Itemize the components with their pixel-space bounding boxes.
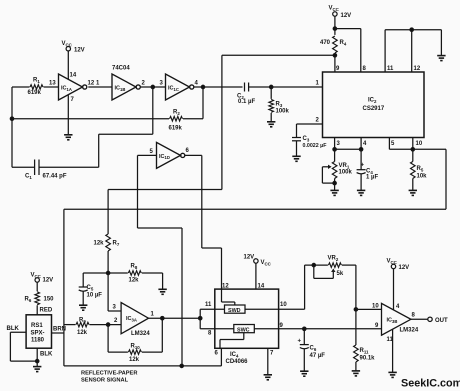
svg-text:IC3A: IC3A	[126, 316, 137, 322]
svg-text:+: +	[298, 339, 302, 345]
svg-text:+: +	[361, 163, 365, 169]
svg-text:12k: 12k	[94, 241, 105, 247]
node X divider junction	[106, 271, 109, 274]
svg-text:CD4066: CD4066	[226, 359, 249, 365]
wire pin3 to pin4	[335, 148, 362, 150]
svg-text:10: 10	[280, 302, 287, 308]
wire feedback node vertical	[11, 87, 13, 167]
resistor R9 12k	[64, 318, 121, 337]
wire node X to IC3A pin 3	[108, 273, 121, 311]
svg-text:OUT: OUT	[435, 318, 448, 324]
svg-text:VR2: VR2	[328, 256, 339, 262]
svg-text:1 µF: 1 µF	[366, 175, 378, 181]
node C6 junction	[303, 327, 306, 330]
svg-text:VCC: VCC	[387, 259, 398, 265]
node Vcc/R4/pin8 junction	[333, 27, 336, 30]
ground at R8	[158, 289, 166, 294]
wire IC1B output to IC1C input	[140, 86, 165, 88]
wire IC1D output to CD4066 pin 12	[185, 155, 222, 289]
op-amp U3 IC3A LM324	[121, 303, 154, 337]
capacitor C2 0.1uF	[237, 83, 323, 106]
ground at R11	[352, 371, 360, 376]
node R4 bottom pin9 junction	[333, 54, 336, 57]
wire BLK bottom lead	[37, 348, 53, 366]
potentiometer VR2 5k	[314, 256, 356, 310]
svg-text:IC1D: IC1D	[159, 154, 170, 160]
resistor R7 12k	[94, 190, 222, 274]
svg-text:12k: 12k	[129, 357, 140, 363]
svg-text:RS1: RS1	[31, 323, 43, 329]
svg-text:R2: R2	[173, 110, 180, 116]
resistor R2 619k feedback	[12, 87, 203, 132]
svg-text:R10: R10	[131, 344, 141, 350]
svg-text:R6: R6	[25, 297, 32, 303]
node pin10 junction	[411, 148, 414, 151]
node IC1C output junction	[201, 85, 204, 88]
svg-text:IC2: IC2	[368, 98, 377, 104]
svg-text:R7: R7	[113, 241, 120, 247]
wire pins 11 and 12 to ground	[385, 30, 441, 72]
svg-text:LM324: LM324	[400, 328, 419, 334]
svg-text:C5: C5	[87, 285, 94, 291]
svg-text:REFLECTIVE-PAPER: REFLECTIVE-PAPER	[81, 371, 137, 377]
svg-text:10k: 10k	[417, 174, 428, 180]
svg-text:100k: 100k	[276, 109, 290, 115]
svg-text:12V: 12V	[74, 48, 85, 54]
op-amp U1 inverter IC1A	[59, 74, 95, 103]
op-amp inverter IC1B 74C04	[96, 66, 146, 101]
svg-text:619k: 619k	[28, 90, 42, 96]
svg-text:0.0022 µF: 0.0022 µF	[303, 143, 328, 149]
svg-text:LM324: LM324	[131, 331, 150, 337]
node VR2 wiper junction	[312, 263, 315, 266]
svg-text:VCC: VCC	[261, 260, 272, 266]
ground at C4	[357, 190, 365, 195]
svg-text:1180: 1180	[31, 338, 45, 344]
svg-text:12k: 12k	[77, 330, 88, 336]
svg-text:IC1A: IC1A	[61, 86, 72, 92]
resistor R3 100k	[269, 87, 290, 122]
svg-text:0.1 µF: 0.1 µF	[238, 99, 255, 105]
svg-text:SPX-: SPX-	[31, 331, 45, 337]
wire to CD4066 pins 11 and 8	[200, 302, 234, 337]
capacitor C4 1uF	[357, 149, 379, 190]
svg-text:VCC: VCC	[62, 41, 73, 47]
resistor R6 150	[25, 292, 55, 315]
wire pin 5 to pin 10	[389, 138, 412, 150]
svg-text:150: 150	[44, 297, 55, 303]
switch SWD inside CD4066	[222, 289, 246, 314]
node Vcc supply at IC1A pin 14	[62, 41, 85, 79]
node VR1 wiper junction	[333, 181, 336, 184]
capacitor C6 47uF	[298, 329, 326, 371]
svg-text:5k: 5k	[337, 271, 344, 277]
op-amp U3 IC3B LM324	[382, 303, 419, 343]
ground at C5	[79, 305, 87, 310]
svg-text:12: 12	[222, 284, 229, 290]
op-amp inverter IC1C	[160, 74, 199, 100]
wire sensor signal bottom line	[64, 348, 222, 366]
wire C1 to IC1B output	[39, 87, 153, 167]
svg-text:12V: 12V	[341, 13, 352, 19]
node VR2 output junction	[354, 308, 357, 311]
ground at C3	[292, 156, 300, 161]
svg-text:90.1k: 90.1k	[360, 356, 376, 362]
resistor R1	[12, 78, 59, 97]
ground at IC1A pin 7	[64, 95, 72, 140]
node pin3 junction	[333, 148, 336, 151]
svg-text:67.44 pF: 67.44 pF	[43, 174, 67, 180]
svg-text:BLK: BLK	[7, 326, 20, 332]
op-amp inverter IC1D	[150, 142, 190, 168]
node CD4066 input junction	[199, 317, 202, 320]
ground at CD4066 pin 7	[264, 348, 272, 380]
svg-text:R4: R4	[340, 40, 347, 46]
wire SWC output pin 9 to IC3B pin 9	[254, 323, 381, 329]
svg-text:R5: R5	[417, 166, 424, 172]
resistor R8 12k	[108, 264, 163, 290]
svg-text:BRN: BRN	[53, 327, 66, 333]
svg-text:VR1: VR1	[339, 163, 350, 169]
svg-text:SWC: SWC	[237, 327, 250, 333]
svg-text:R8: R8	[131, 264, 138, 270]
switch SWC inside CD4066	[220, 325, 254, 349]
node Vcc supply at CD4066	[244, 255, 272, 290]
ground at C6	[300, 371, 308, 376]
resistor R5 10k	[411, 149, 428, 190]
wire pin9 node to mid vertical	[222, 55, 335, 189]
svg-text:100k: 100k	[339, 170, 353, 176]
potentiometer VR1 100k	[322, 149, 352, 190]
wire IC1A output to IC1B input	[88, 86, 112, 88]
ground at VR1	[330, 190, 338, 195]
svg-text:VCC: VCC	[31, 273, 42, 279]
svg-text:47 µF: 47 µF	[310, 353, 326, 359]
node IC3A pin2 junction	[106, 323, 109, 326]
ground at IC3B pin 11	[388, 329, 396, 377]
svg-text:R9: R9	[79, 318, 86, 324]
svg-text:SeekIC.com: SeekIC.com	[401, 378, 460, 390]
ground at R5	[409, 190, 417, 195]
node feedback junction	[10, 117, 13, 120]
svg-text:SENSOR SIGNAL: SENSOR SIGNAL	[81, 378, 129, 384]
svg-text:VCC: VCC	[329, 6, 340, 12]
svg-text:R1: R1	[33, 78, 40, 84]
svg-text:C6: C6	[310, 346, 317, 352]
svg-text:IC1C: IC1C	[168, 86, 179, 92]
svg-text:C1: C1	[25, 174, 32, 180]
svg-text:12V: 12V	[244, 255, 255, 261]
svg-text:12: 12	[88, 81, 95, 87]
svg-text:12k: 12k	[129, 278, 140, 284]
svg-text:10: 10	[416, 141, 423, 147]
sensor RS1 SPX-1180 box	[26, 315, 51, 348]
node Vcc supply at IC3B	[387, 259, 410, 311]
svg-text:619k: 619k	[169, 126, 183, 132]
svg-text:12V: 12V	[43, 278, 54, 284]
wire IC1C output to C2	[194, 86, 243, 88]
node pins11/12 junction	[410, 28, 413, 31]
wire pin10 node to long clock line	[64, 149, 446, 366]
node IC3A output junction	[161, 317, 164, 320]
svg-text:RED: RED	[40, 308, 53, 314]
op-amp U4 IC4 CD4066 box	[215, 284, 288, 365]
svg-text:10: 10	[372, 304, 379, 310]
svg-text:C3: C3	[303, 136, 310, 142]
node Vcc supply at CS2917	[329, 6, 352, 35]
wire pin 4 down	[360, 138, 362, 150]
svg-text:IC4: IC4	[230, 352, 239, 358]
svg-text:11: 11	[205, 302, 212, 308]
node Vcc supply at sensor	[31, 273, 54, 292]
svg-text:IC3B: IC3B	[387, 318, 398, 324]
wire BLK left lead	[7, 326, 38, 361]
node C2/R3/pin1 junction	[270, 85, 273, 88]
ground at R3	[267, 122, 275, 127]
svg-text:11: 11	[387, 66, 394, 72]
svg-text:74C04: 74C04	[112, 66, 130, 72]
node bottom line junction	[180, 364, 183, 367]
wire IC3A output	[149, 317, 201, 319]
svg-text:SWD: SWD	[228, 308, 241, 314]
svg-text:12: 12	[414, 66, 421, 72]
op-amp U2 IC2 CS2917 box	[316, 66, 425, 147]
svg-text:470: 470	[320, 40, 331, 46]
svg-text:IC1B: IC1B	[115, 86, 126, 92]
wire IC1D input staircase	[138, 155, 183, 366]
wire BRN output lead	[52, 327, 67, 334]
node pin4 junction	[359, 148, 362, 151]
svg-text:R3: R3	[276, 102, 283, 108]
node label reflective-paper sensor signal	[81, 371, 137, 384]
node IC1B output junction	[151, 85, 154, 88]
capacitor C5 10uF	[79, 273, 108, 305]
node OUT terminal	[411, 317, 448, 324]
capacitor C1 67.44 pF	[12, 160, 67, 180]
wire VR2 to IC3B pin 10	[356, 304, 382, 310]
node sensor ground junction	[36, 359, 39, 362]
svg-text:R11: R11	[360, 348, 370, 354]
wire pin 3 down	[334, 138, 336, 150]
svg-text:13: 13	[49, 81, 56, 87]
ground at sensor	[33, 367, 41, 372]
svg-text:BLK: BLK	[40, 352, 53, 358]
resistor R4 470	[320, 36, 347, 72]
svg-text:10 µF: 10 µF	[87, 293, 103, 299]
wire SWD output pin 10 to VR2	[245, 265, 328, 309]
ground top right	[437, 56, 445, 61]
resistor R11 90.1k	[354, 309, 376, 371]
svg-text:14: 14	[70, 73, 77, 79]
svg-text:12V: 12V	[399, 265, 410, 271]
svg-text:CS2917: CS2917	[363, 106, 385, 112]
wire Vcc to pin 8	[335, 29, 361, 72]
resistor R10 12k feedback	[108, 318, 162, 363]
capacitor C3 0.0022uF on pin 2	[292, 124, 327, 156]
